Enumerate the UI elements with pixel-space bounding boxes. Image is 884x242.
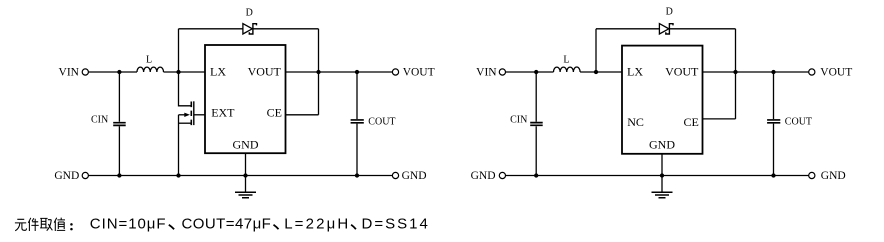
svg-text:VIN: VIN [59,66,80,78]
pin VOUT U2 [665,65,699,79]
svg-text:D: D [246,8,253,19]
pin EXT U1 [211,105,235,119]
wire vertical diode to VOUT to CE right [735,29,737,119]
wire U1 GND pin to ground [245,154,247,193]
note text D=SS14 [362,215,430,232]
svg-text:CIN: CIN [510,115,527,126]
svg-text:NC: NC [627,115,644,129]
IC U1 box [205,45,286,153]
note text chinese 元 [15,219,27,231]
label VOUT terminal right circuit [820,67,852,79]
pin CE U1 [267,105,282,119]
wire CE to vertical right [703,118,736,120]
label VIN left [59,66,80,78]
transistor Q1 arrow head [184,113,190,117]
note text L=22uH [284,215,350,232]
wire vertical diode to VOUT to CE [318,29,320,115]
junction dots right circuit [534,70,776,178]
pin LX U1 [210,65,226,79]
svg-text:L: L [563,55,569,66]
svg-text:L: L [146,55,152,66]
terminal VIN left [82,69,88,75]
svg-text:GND: GND [471,170,496,182]
transistor Q1 gate plate [193,101,195,125]
ground symbol left [235,192,256,197]
svg-text:VOUT: VOUT [248,65,282,79]
wire vertical LX junction up right [595,29,597,72]
terminal GND right-circuit left [499,172,505,178]
capacitor C3 CIN branch wire right [535,72,537,176]
junction dots left circuit [117,70,359,178]
capacitor C2 COUT branch wire [356,72,358,176]
svg-text:VOUT: VOUT [665,65,699,79]
svg-text:COUT: COUT [368,116,395,127]
svg-text:CE: CE [684,115,699,129]
capacitor C2 COUT plates [351,120,364,123]
svg-text:EXT: EXT [211,105,235,119]
label VIN right [476,66,497,78]
terminal VOUT left [392,69,398,75]
diode D1 schottky bar [249,24,256,34]
wire U2 GND pin to ground [661,154,663,193]
note text CIN=10uF [90,215,167,232]
label L1 [146,55,152,66]
label D1 [246,8,253,19]
wire VOUT rail right circuit [703,71,809,73]
capacitor C4 COUT plates right [767,120,780,123]
label GND terminal right-circuit left [471,170,496,182]
pin NC U2 [627,115,644,129]
pin GND U1 [233,137,259,151]
svg-text:D=SS14: D=SS14 [362,215,430,232]
pin CE U2 [684,115,699,129]
wire Q1 source to GND rail [178,115,180,176]
wire VIN rail right [506,71,623,73]
note text chinese 取 [40,218,52,230]
wire VIN rail left [88,71,205,73]
pin LX U2 [627,65,643,79]
capacitor C4 COUT branch wire right [773,72,775,176]
pin GND U2 [649,137,675,151]
IC U2 box [622,46,703,154]
svg-text:GND: GND [821,170,846,182]
wire GND rail left circuit [88,175,392,177]
wire Q1 gate to EXT pin [194,114,205,116]
label L2 [563,55,569,66]
diode D2 schottky bar [666,24,673,34]
svg-text:D: D [666,7,673,18]
capacitor C3 CIN plates right [530,123,543,126]
note text chinese 值 [54,218,65,231]
svg-text:CE: CE [267,105,282,119]
capacitor C1 CIN plates [113,123,126,126]
label COUT right [785,116,812,127]
terminal GND far right [809,172,815,178]
note text chinese 件 [28,218,38,231]
terminal VIN right [499,69,505,75]
wire top diode loop left [179,28,319,30]
transistor Q1 source stub [179,122,191,124]
pin VOUT U1 [248,65,282,79]
ideographic comma 1 [169,225,174,230]
wire top diode loop right [596,28,736,30]
capacitor C1 CIN branch wire [118,72,120,176]
svg-text:GND: GND [54,170,79,182]
label CIN right [510,115,527,126]
svg-text:VIN: VIN [476,66,497,78]
inductor L1 [137,67,164,72]
svg-text:VOUT: VOUT [820,67,852,79]
inductor L2 [554,67,581,72]
label D2 [666,7,673,18]
svg-text:LX: LX [210,65,226,79]
label VOUT terminal left circuit [403,67,435,79]
note text COUT=47uF [182,215,272,232]
wire VOUT rail left circuit [286,71,393,73]
terminal GND left-bottom [82,172,88,178]
note text chinese fullwidth colon [70,223,73,230]
svg-text:COUT=47μF: COUT=47μF [182,215,272,232]
diode D2 triangle [659,24,668,34]
svg-text:LX: LX [627,65,643,79]
svg-text:L=22μH: L=22μH [284,215,350,232]
svg-text:CIN: CIN [91,115,108,126]
wire GND rail right circuit [506,175,809,177]
label GND terminal far right [821,170,846,182]
svg-text:GND: GND [402,170,427,182]
label GND terminal left-bottom [54,170,79,182]
diode D1 triangle [243,24,252,34]
svg-text:COUT: COUT [785,116,812,127]
terminal GND left-circuit right [392,172,398,178]
terminal VOUT right [809,69,815,75]
label GND terminal left-circuit right [402,170,427,182]
transistor Q1 channel bars [190,102,192,126]
svg-text:CIN=10μF: CIN=10μF [90,215,167,232]
svg-text:GND: GND [649,137,675,151]
ideographic comma 2 [274,225,279,230]
svg-text:GND: GND [233,137,259,151]
svg-text:VOUT: VOUT [403,67,435,79]
wire vertical LX to diode and to Q1 drain [179,29,191,106]
label COUT left [368,116,395,127]
ideographic comma 3 [351,225,356,230]
wire CE to vertical [286,114,319,116]
transistor Q1 body stub with arrow [179,114,186,116]
label CIN left [91,115,108,126]
ground symbol right [652,192,673,197]
